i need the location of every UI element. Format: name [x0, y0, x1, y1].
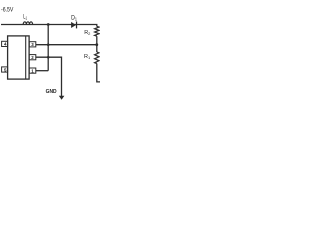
junction dot at FB wire crossing — [47, 43, 50, 46]
node FB junction dot — [95, 43, 98, 46]
junction dot at GND wire crossing — [47, 56, 50, 59]
background — [0, 0, 100, 100]
pin 3 box (right top) — [29, 42, 36, 47]
wire R1 bottom exiting right — [97, 64, 100, 82]
svg-text:R2: R2 — [84, 30, 91, 36]
wire R2 bottom to FB node — [96, 36, 98, 52]
svg-text:-6.5V: -6.5V — [1, 7, 14, 14]
pin 2 box (right middle) — [29, 55, 36, 60]
IC internal line — [25, 36, 27, 79]
resistor R2 — [95, 26, 99, 36]
wire top rail — [1, 24, 97, 26]
diode D1 — [71, 22, 77, 29]
IC U1 body — [8, 36, 30, 79]
resistor R1 — [95, 52, 99, 63]
node SW junction dot on rail — [47, 23, 50, 26]
wire pin2 to GND — [36, 57, 62, 96]
svg-text:GND: GND — [46, 89, 57, 95]
ground arrow — [59, 96, 65, 100]
svg-text:L1: L1 — [23, 15, 27, 21]
pin 5 box (left bottom) — [2, 67, 8, 72]
svg-text:R1: R1 — [84, 54, 91, 60]
inductor L1 — [23, 22, 32, 25]
wire right rail top corner — [96, 25, 98, 27]
wire pin1 to SW vertical — [36, 70, 48, 72]
wire pin3 FB to divider — [36, 44, 97, 46]
pin 4 box (left top) — [2, 41, 8, 46]
wire SW vertical — [47, 25, 49, 71]
pin 1 box (right bottom) — [29, 68, 36, 73]
